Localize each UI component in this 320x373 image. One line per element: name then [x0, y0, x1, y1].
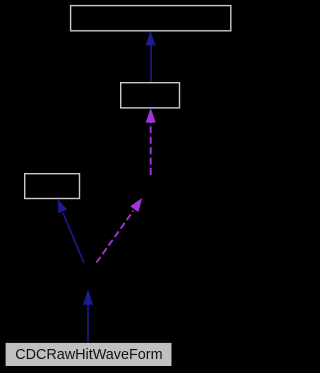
- box top (base class, text invisible): [71, 6, 231, 31]
- box middle (class, text invisible): [121, 83, 180, 108]
- arrow purple dashed vertical: to middle box bottom: [146, 108, 156, 175]
- svg-text:CDCRawHitWaveForm: CDCRawHitWaveForm: [15, 347, 162, 363]
- arrow navy vertical: middle box to top box: [145, 31, 155, 82]
- box bottom: CDCRawHitWaveForm (current class): [6, 343, 172, 366]
- arrow navy vertical: bottom box to junction: [83, 289, 93, 342]
- arrow navy diagonal: junction to left box: [58, 199, 84, 263]
- arrow purple dashed diagonal: junction toward middle: [97, 198, 143, 263]
- box left (class, text invisible): [25, 174, 80, 199]
